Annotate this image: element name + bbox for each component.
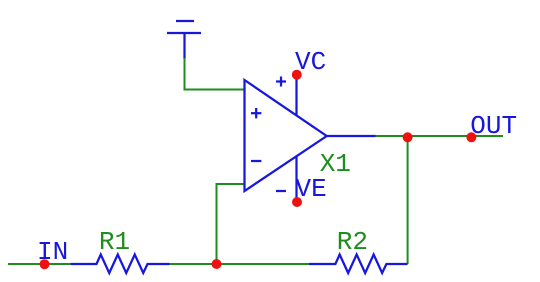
wire bottom rail left <box>8 263 71 265</box>
resistor R2 <box>309 255 408 274</box>
op-amp X1 <box>245 75 376 203</box>
wire ground to op-amp + input <box>185 58 245 90</box>
svg-text:R2: R2 <box>337 227 368 257</box>
svg-text:VC: VC <box>295 47 326 77</box>
junction dot output <box>403 132 413 142</box>
pin dot VC <box>292 70 302 80</box>
resistor R1 <box>71 255 170 274</box>
wire output net <box>376 135 503 137</box>
node IN dot <box>40 259 50 269</box>
wire feedback right vertical <box>407 136 409 264</box>
wire bottom rail middle <box>170 263 309 265</box>
junction dot feedback bottom <box>212 259 222 269</box>
wire feedback left vertical <box>217 184 245 264</box>
svg-text:IN: IN <box>37 237 68 267</box>
node OUT dot <box>466 132 476 142</box>
svg-text:R1: R1 <box>99 227 130 257</box>
pin dot VE <box>292 197 302 207</box>
svg-text:OUT: OUT <box>470 111 517 141</box>
ground <box>167 21 201 59</box>
svg-text:X1: X1 <box>320 149 351 179</box>
